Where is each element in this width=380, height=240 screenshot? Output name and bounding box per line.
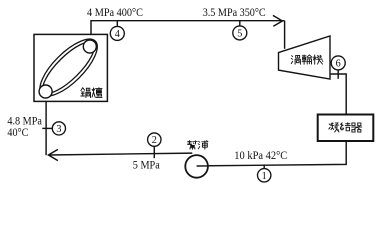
wire boiler outlet vertical to top pipe xyxy=(90,21,92,47)
svg-text:4 MPa 400°C: 4 MPa 400°C xyxy=(87,7,143,19)
wire pump outlet from center xyxy=(197,165,208,167)
turbine label 渦 xyxy=(291,55,300,64)
pump label 浦 xyxy=(198,141,208,150)
condenser box xyxy=(318,115,374,142)
node 4 stub xyxy=(116,21,118,27)
boiler port circle top xyxy=(83,40,96,53)
node 2 circle xyxy=(148,133,161,146)
arrowhead right (turbine inlet) xyxy=(273,15,283,26)
node 6 circle xyxy=(331,56,345,70)
turbine label 輪 xyxy=(302,55,312,64)
boiler port circle bottom xyxy=(39,85,52,98)
arrowhead left (into boiler feed line) xyxy=(48,149,58,160)
boiler label 鍋 xyxy=(81,88,91,98)
wire boiler feed vertical xyxy=(45,92,47,156)
svg-text:6: 6 xyxy=(336,59,341,70)
node 5 circle xyxy=(233,26,247,40)
svg-text:4.8 MPa: 4.8 MPa xyxy=(7,115,42,127)
pump label 幫 xyxy=(188,141,198,150)
svg-text:4: 4 xyxy=(115,29,120,40)
node 4 circle xyxy=(110,26,124,40)
wire turbine inlet vertical xyxy=(284,21,286,49)
svg-text:10 kPa 42°C: 10 kPa 42°C xyxy=(234,150,287,162)
pump circle xyxy=(185,155,208,178)
boiler box xyxy=(34,34,107,101)
wire condenser outlet down and left to pump xyxy=(197,141,347,166)
condenser label 結 xyxy=(340,123,350,131)
turbine label 機 xyxy=(313,55,323,64)
turbine body xyxy=(279,36,331,79)
svg-text:3.5 MPa 350°C: 3.5 MPa 350°C xyxy=(203,7,266,19)
boiler coil inner ellipse xyxy=(36,35,101,100)
condenser label 器 xyxy=(352,123,362,132)
boiler label 爐 xyxy=(92,88,102,98)
wire pump inlet pipe (bottom left, flow to the left) xyxy=(48,153,192,155)
svg-text:2: 2 xyxy=(152,135,157,146)
svg-text:1: 1 xyxy=(262,171,267,182)
node 1 stub xyxy=(263,164,265,168)
svg-text:3: 3 xyxy=(56,124,61,135)
wire top pipe horizontal (boiler to turbine) xyxy=(90,20,284,22)
svg-text:40°C: 40°C xyxy=(7,127,28,139)
wire turbine outlet to condenser xyxy=(330,74,346,115)
boiler coil outer ellipse xyxy=(32,31,106,105)
node 3 stub xyxy=(42,127,52,129)
node 1 circle xyxy=(258,169,271,182)
node 6 stub xyxy=(337,69,339,79)
svg-text:5: 5 xyxy=(237,29,242,40)
node 5 stub xyxy=(239,21,241,26)
svg-text:5 MPa: 5 MPa xyxy=(133,160,160,172)
node 2 stub xyxy=(153,146,155,158)
node 3 circle xyxy=(52,122,65,135)
condenser label 凝 xyxy=(329,123,339,132)
